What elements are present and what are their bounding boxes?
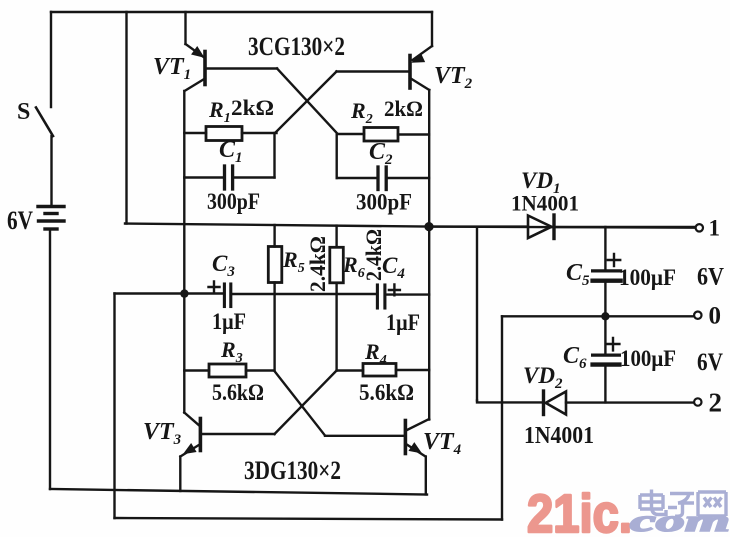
wire R4 left [337,369,363,371]
terminal 1 circle [696,224,703,231]
wire bottom return rail2 [115,518,503,520]
wire VT2 emitter drop from rail [431,12,433,46]
diode VD1 anode wire [429,225,528,227]
wire cross-couple C: R3R5 node to VT4 base [274,371,325,436]
svg-text:3DG130×2: 3DG130×2 [244,456,341,485]
wire R4 right [396,369,429,371]
plus sign C5 [608,254,620,266]
svg-text:2kΩ: 2kΩ [231,95,274,120]
svg-text:100μF: 100μF [619,265,676,290]
wire R1 left [184,132,206,134]
capacitor C6 plates [593,354,620,357]
diode VD2 cathode bar [542,391,545,415]
transistor VT3 base bar [199,419,203,451]
capacitor C2 plates [378,167,386,190]
svg-text:6V: 6V [7,206,33,235]
wire VD2 row left [477,401,542,403]
transistor VT1 base bar [203,52,207,85]
node junction dot rail/right chain [424,222,433,231]
node junction dot left chain / C3 row [180,289,188,297]
transistor VT2 emitter arrow [413,54,425,63]
capacitor C6 bottom wire [604,367,606,403]
svg-text:6V: 6V [697,349,723,376]
svg-text:2kΩ: 2kΩ [384,96,423,121]
svg-text:5.6kΩ: 5.6kΩ [359,380,414,405]
resistor R2 body [364,128,398,142]
wire zero drop x502 [501,316,503,519]
diode VD2 anode wire to terminal 2 [566,401,694,403]
capacitor C5 top wire [604,227,606,269]
wire left battery drop from rail [50,12,52,107]
svg-text:100μF: 100μF [620,346,676,371]
transistor VT3 base wire [202,433,275,435]
svg-text:1μF: 1μF [212,309,246,334]
wire C1 right [234,176,274,178]
transistor VT2 base bar [408,56,412,89]
plus sign C3 [209,282,220,293]
diode VD1 cathode wire to terminal 1 [556,226,696,228]
transistor VT1 base wire [207,67,278,69]
wire left collector chain x184 [183,91,185,413]
wire battery negative down [49,231,51,490]
wire mid supply rail y225 [125,224,696,228]
svg-text:300pF: 300pF [356,190,412,215]
svg-text:21ic.: 21ic. [527,484,632,537]
svg-text:6V: 6V [697,264,724,291]
terminal 2 circle [694,398,701,405]
resistor R5 body [268,247,282,283]
wire R2 left [337,133,364,135]
resistor R3 body [209,364,246,377]
wire C1 left [184,176,223,178]
capacitor C6 top wire [604,316,606,353]
switch S blade [36,108,53,137]
transistor VT2 collector diagonal [410,78,429,90]
resistor R4 body [363,364,396,377]
transistor VT2 base wire [337,70,409,72]
diode VD1 triangle [528,216,552,239]
svg-text:S: S [17,99,30,125]
wire zero rail [502,315,694,317]
transistor VT4 base bar [404,421,408,454]
transistor VT4 emitter arrow [409,443,421,453]
transistor VT3 emitter diagonal [180,444,200,457]
wire C4 row right segment [387,293,429,295]
wire cross-couple A: VT1 base to R2C2 node [277,69,337,134]
capacitor C4 plates [377,285,385,308]
wire VT1 emitter drop [184,12,186,44]
capacitor C5 bottom wire [604,283,606,316]
transistor VT2 emitter diagonal [413,46,433,60]
svg-text:5.6kΩ: 5.6kΩ [212,380,264,405]
node junction dot C5C6 / zero rail [601,312,609,320]
wire cross-couple B: VT2 base to R1C1 node [276,72,337,133]
wire C3-C4 row middle segment [233,293,376,295]
transistor VT1 emitter arrow [192,47,204,57]
wire R3 right [246,369,274,371]
transistor VT3 emitter arrow [184,444,196,454]
resistor R6 body [330,247,344,282]
wire C3 row left segment [115,292,223,294]
terminal 0 circle [694,312,701,319]
battery B1 6V plates [38,207,64,230]
wire bottom emitter rail [50,489,427,495]
wire R1 right [242,132,277,134]
wire VD2 feed drop x477 [476,227,478,401]
resistor R6 bottom wire [335,283,337,371]
wire R3 left [184,369,209,371]
wire C2 left [337,177,377,179]
svg-text:1: 1 [709,216,721,241]
svg-text:com: com [630,503,730,537]
plus sign C6 [607,338,620,350]
transistor VT1 emitter diagonal [186,44,204,57]
diode VD1 cathode bar [552,215,555,239]
transistor VT4 emitter diagonal [406,444,426,457]
svg-text:2.4kΩ: 2.4kΩ [305,236,330,292]
wire right collector chain x429 [428,90,430,420]
wire VT4 emitter down to rail [425,457,427,495]
diode VD2 triangle [546,392,566,415]
transistor VT4 collector diagonal [406,419,429,431]
svg-text:2: 2 [709,388,723,418]
transistor VT1 collector diagonal [185,79,206,92]
wire second top drop x127 [125,12,127,224]
watermark dianziwang characters [640,490,726,517]
svg-text:1N4001: 1N4001 [511,191,579,216]
capacitor C5 plates [593,269,621,272]
wire VT3 emitter down [179,457,181,492]
svg-text:3CG130×2: 3CG130×2 [248,32,345,61]
wire C2 right [388,177,429,179]
transistor VT4 base wire [325,435,404,437]
wire C1 right node vertical [273,133,275,178]
resistor R5 bottom wire [273,283,275,371]
svg-text:0: 0 [709,303,722,330]
wire cross-couple D: R4R6 node to VT3 base [275,371,337,435]
capacitor C3 plates [224,284,230,307]
wire top supply rail [51,11,432,13]
resistor R1 body [206,127,242,141]
svg-text:1μF: 1μF [386,310,420,335]
resistor R6 top wire [335,226,337,248]
capacitor C1 plates [225,166,233,189]
wire C2 left node vertical [336,134,338,178]
svg-text:1N4001: 1N4001 [524,423,594,449]
wire switch to battery [50,136,52,206]
wire left mid drop x114 [113,294,115,519]
svg-text:300pF: 300pF [207,189,260,214]
transistor VT3 collector diagonal [184,413,200,427]
resistor R5 top wire [273,225,275,247]
plus sign C4 [389,285,400,296]
wire R2 right [398,133,429,135]
